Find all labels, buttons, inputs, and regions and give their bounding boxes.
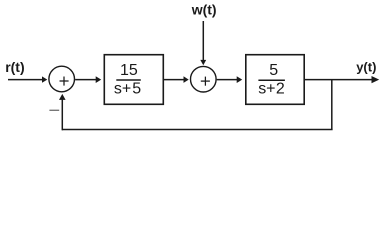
- wire G1 to S2: [164, 76, 189, 83]
- svg-text:+: +: [266, 80, 275, 97]
- svg-text:2: 2: [276, 80, 285, 97]
- svg-text:5: 5: [269, 62, 278, 79]
- svg-text:w(t): w(t): [191, 1, 217, 17]
- block G1 15/(s+5): [104, 55, 163, 105]
- wire w(t) input arrow: [200, 21, 206, 65]
- fraction bar of G1: [116, 79, 141, 81]
- minus sign (feedback polarity): [49, 109, 59, 111]
- summing junction S1: [49, 66, 75, 92]
- svg-text:15: 15: [120, 62, 138, 79]
- value label denominator s + 5: [114, 80, 141, 97]
- wire feedback bottom run: [62, 129, 332, 131]
- node w(t) label: [191, 1, 217, 17]
- value label numerator 5: [269, 62, 278, 79]
- value label denominator s + 2: [258, 80, 285, 97]
- value label numerator 15: [120, 62, 138, 79]
- svg-text:y(t): y(t): [356, 60, 376, 75]
- node r(t) label: [5, 59, 24, 75]
- node y(t) label: [356, 60, 376, 75]
- svg-text:5: 5: [132, 80, 141, 97]
- wire feedback up into S1: [59, 94, 66, 130]
- plus sign in S2: [201, 77, 210, 86]
- summing junction S2: [191, 66, 217, 92]
- wire S2 to block G2: [217, 76, 243, 83]
- svg-text:s: s: [258, 80, 266, 97]
- plus sign in S1: [60, 77, 69, 86]
- wire S1 to block G1: [75, 76, 101, 83]
- block G2 5/(s+2): [246, 55, 304, 105]
- fraction bar of G2: [258, 79, 285, 81]
- svg-text:s: s: [114, 80, 122, 97]
- wire feedback tap down: [331, 80, 333, 130]
- svg-text:+: +: [122, 80, 131, 97]
- wire G2 output to y(t): [305, 76, 379, 83]
- wire r(t) input arrow: [8, 76, 47, 82]
- svg-text:r(t): r(t): [5, 59, 24, 75]
